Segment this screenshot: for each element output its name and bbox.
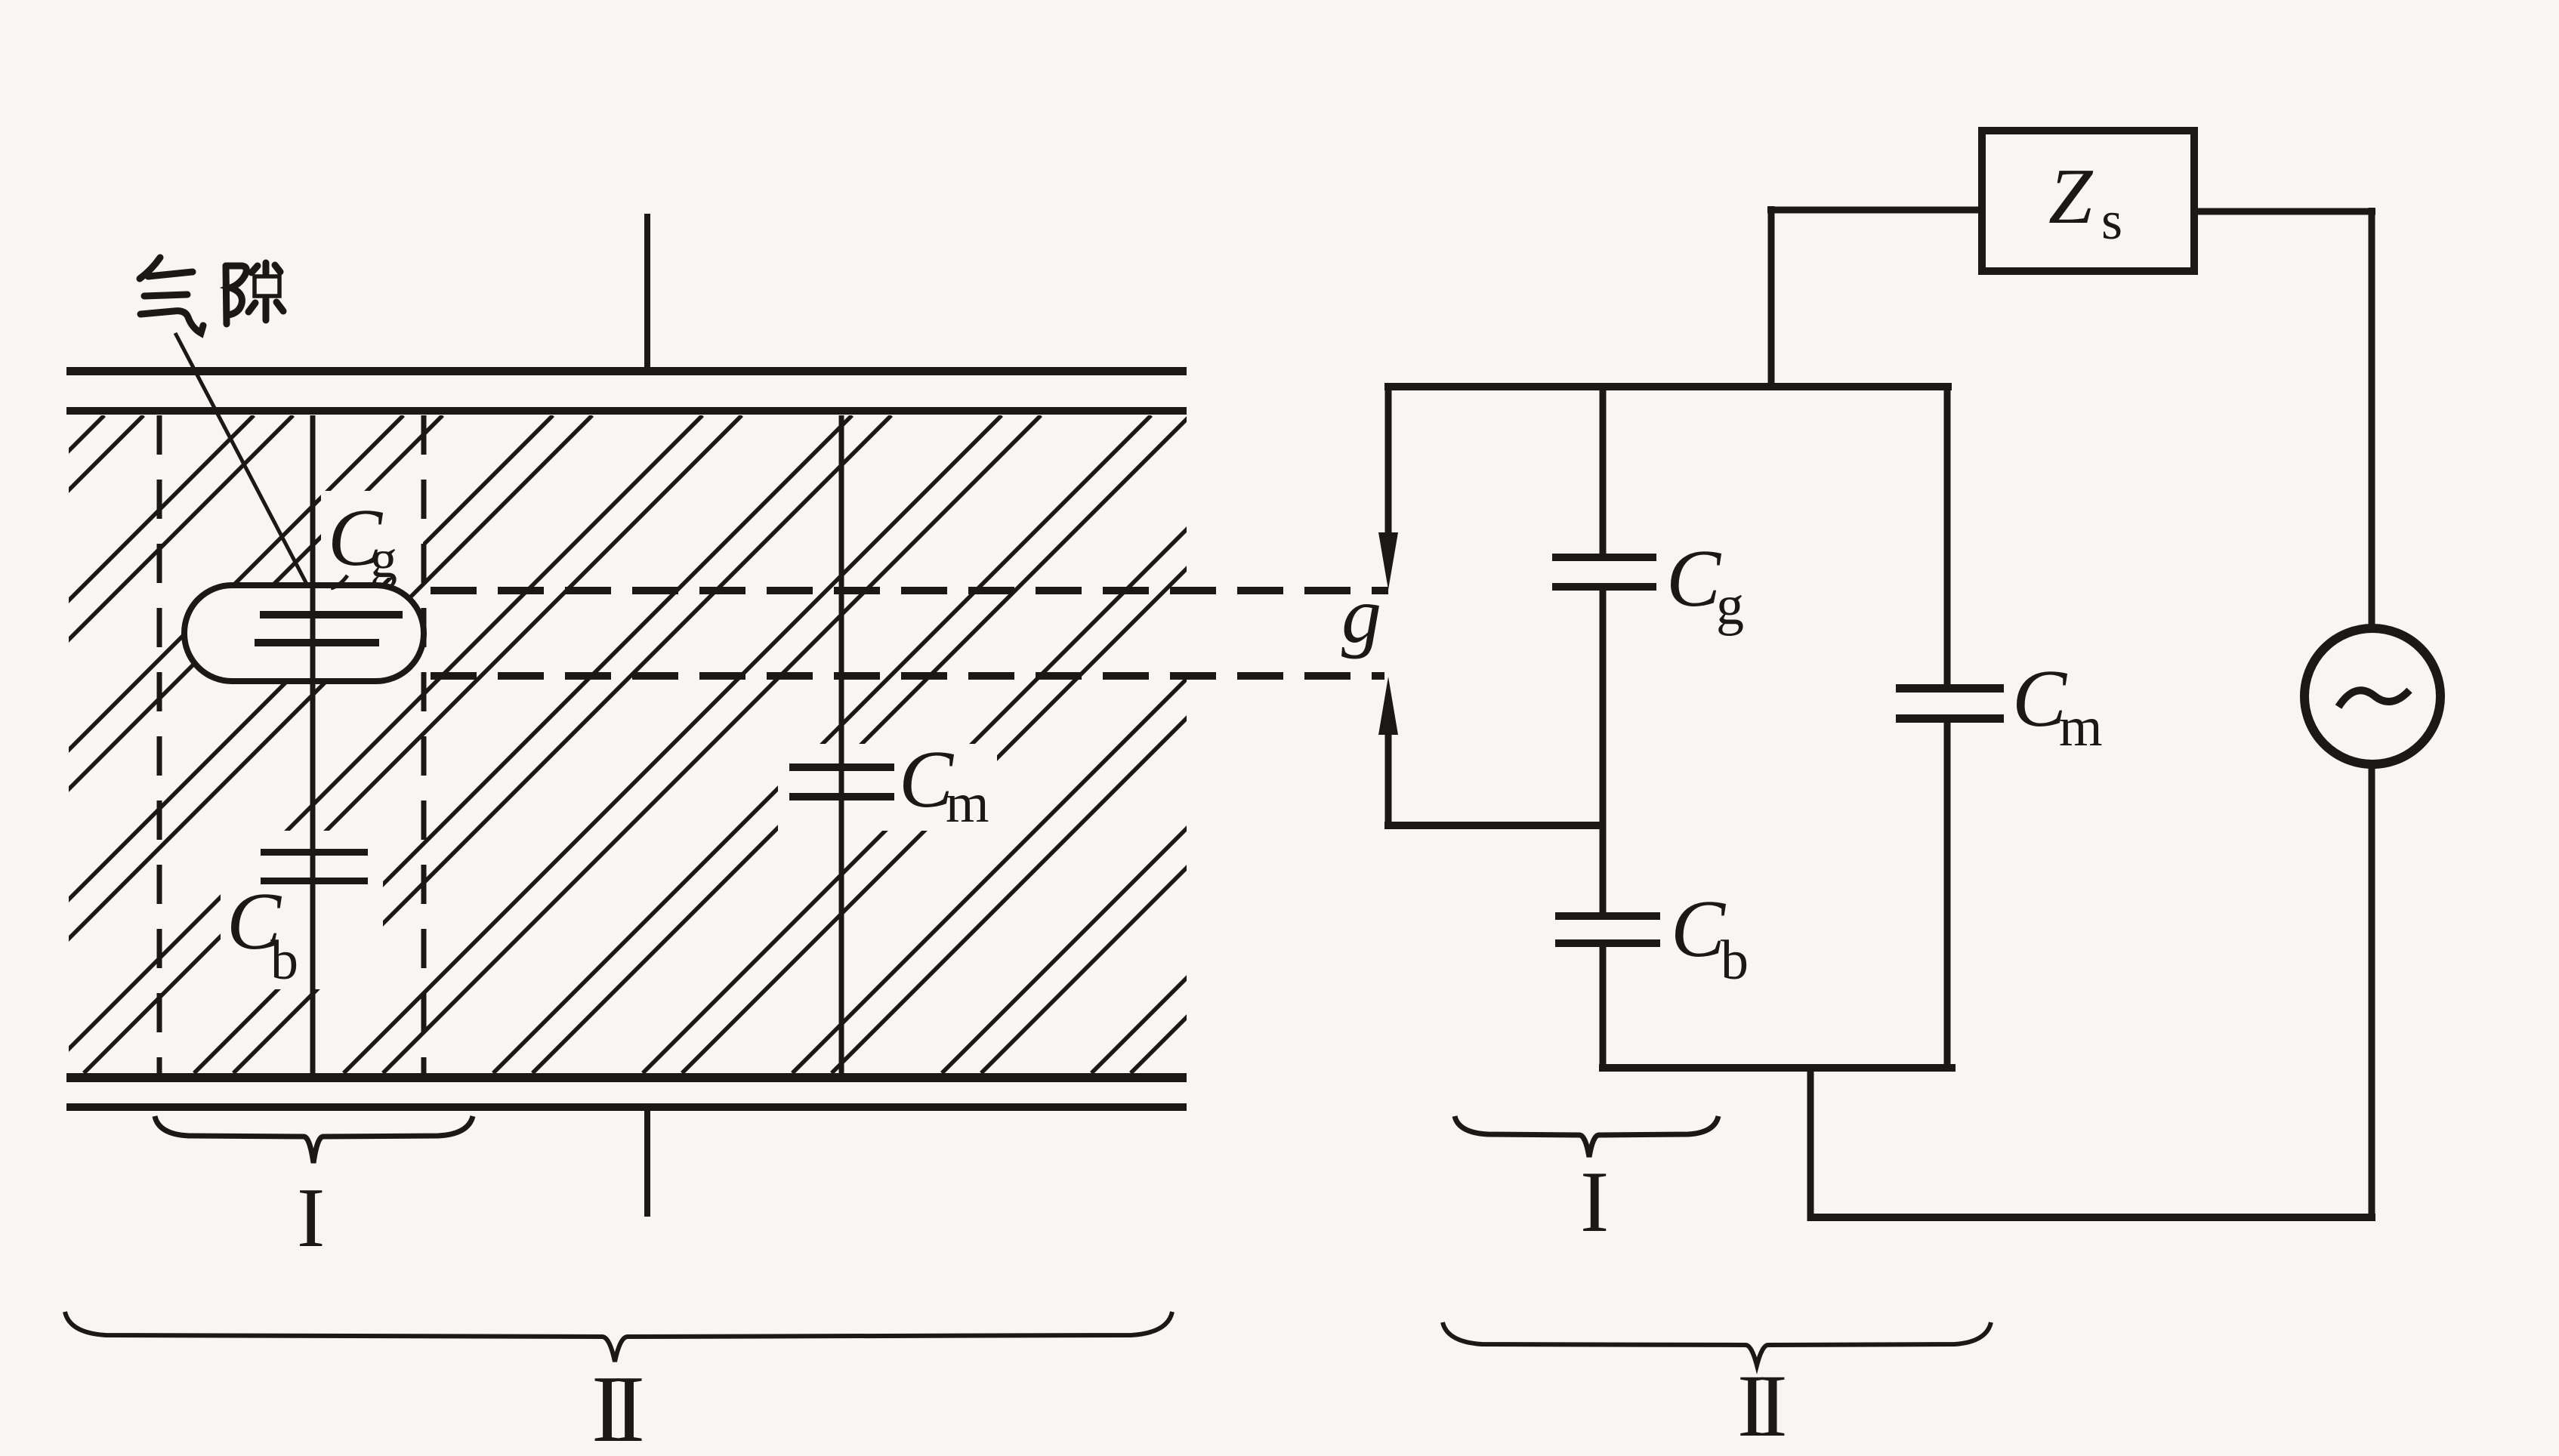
leader line from label to cavity (175, 333, 308, 587)
wire: inner box top (1384, 383, 1952, 390)
wire: Cm branch upper (1944, 387, 1951, 684)
svg-text:b: b (1721, 930, 1749, 992)
label 气隙 (air gap), drawn strokes (140, 258, 283, 333)
capacitor Cm (left) plate lower (789, 793, 894, 800)
capacitor Cg (circuit) plate upper (1552, 554, 1656, 561)
svg-text:g: g (1716, 575, 1744, 637)
dashed projection line top (cavity to circuit) (431, 587, 1388, 594)
wire: to Zs box (1767, 207, 1982, 214)
brace II (right) (1443, 1322, 1991, 1365)
brace I (left) (155, 1116, 473, 1163)
wire: circuit bottom (1810, 1214, 2375, 1221)
capacitor Cb (circuit) plate lower (1555, 939, 1660, 947)
column line through gap (Cg/Cb branch) (310, 415, 316, 1073)
capacitor Cm (circuit) plate upper (1896, 684, 2004, 693)
capacitor Cm (left) plate upper (789, 763, 894, 771)
capacitor Cb (left) plate lower (261, 878, 368, 884)
node g arrow lower (up arrow) (1378, 677, 1398, 735)
wire: Cm branch lower (1944, 723, 1951, 1068)
bottom electrode plate line 1 (66, 1073, 1187, 1082)
wire: right vertical down to source (2369, 208, 2375, 626)
top electrode lead wire (644, 214, 650, 369)
dashed region boundary line left (157, 415, 162, 1073)
dashed projection line bottom (431, 672, 1384, 680)
capacitor Cg (circuit) plate lower (1552, 583, 1656, 591)
svg-text:Z: Z (2048, 152, 2094, 240)
tick from Cg label to cavity (331, 575, 347, 588)
capacitor Cb (left section) plate upper (261, 849, 368, 856)
top electrode plate line 2 (66, 407, 1187, 415)
svg-text:II: II (1737, 1356, 1785, 1455)
brace I (right) (1455, 1116, 1718, 1157)
gap capacitor plate lower (255, 639, 379, 646)
bottom electrode lead wire (644, 1111, 650, 1217)
svg-text:C: C (1666, 534, 1722, 624)
wire: Zs to source top (2194, 208, 2375, 215)
svg-text:I: I (297, 1171, 325, 1265)
top electrode plate line 1 (66, 367, 1187, 375)
wire: below source (2369, 764, 2375, 1221)
wire: Zs feed vertical (1768, 206, 1775, 387)
svg-text:C: C (1671, 884, 1727, 974)
wire: below Cb to inner box bottom (1600, 947, 1607, 1072)
column line for Cm (left) (839, 415, 844, 1073)
svg-text:m: m (2059, 696, 2103, 758)
wire: Cg-Cb branch upper (1600, 387, 1607, 554)
capacitor Cb (circuit) plate upper (1555, 912, 1660, 920)
node g arrow upper (down arrow) (1385, 387, 1392, 555)
gap capacitor plate upper (260, 611, 403, 618)
wire: bottom vertical from inner box (1807, 1068, 1814, 1221)
svg-text:I: I (1580, 1154, 1609, 1250)
white clearings for labels/caps inside hatch (221, 491, 997, 989)
wire: inner box bottom (1599, 1064, 1956, 1072)
bottom electrode plate line 2 (66, 1103, 1187, 1111)
svg-text:m: m (946, 773, 989, 834)
AC source (2304, 628, 2440, 764)
wire: gap bottom horizontal (1384, 822, 1603, 829)
wire: between Cg and junction (1600, 591, 1607, 912)
svg-text:b: b (270, 930, 298, 992)
insulation hatching (0, 415, 1789, 1073)
svg-text:g: g (370, 529, 397, 589)
svg-text:s: s (2101, 190, 2122, 251)
svg-text:g: g (1341, 571, 1381, 659)
impedance Zs box (1982, 131, 2194, 271)
capacitor Cm (circuit) plate lower (1896, 714, 2004, 723)
air gap cavity (stadium) (184, 585, 424, 681)
brace II (left) (65, 1312, 1172, 1362)
dashed region boundary line right (421, 415, 427, 1073)
svg-text:II: II (591, 1357, 642, 1456)
